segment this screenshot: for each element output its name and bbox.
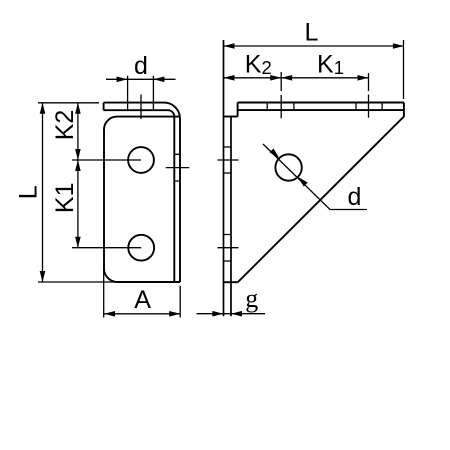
svg-text:A: A [134,286,151,314]
svg-text:K1: K1 [51,183,79,214]
svg-text:g: g [245,284,258,313]
svg-text:d: d [134,52,148,80]
svg-text:d: d [348,183,362,211]
svg-text:L: L [15,185,43,199]
svg-text:L: L [305,19,319,47]
svg-text:K2: K2 [51,110,79,141]
